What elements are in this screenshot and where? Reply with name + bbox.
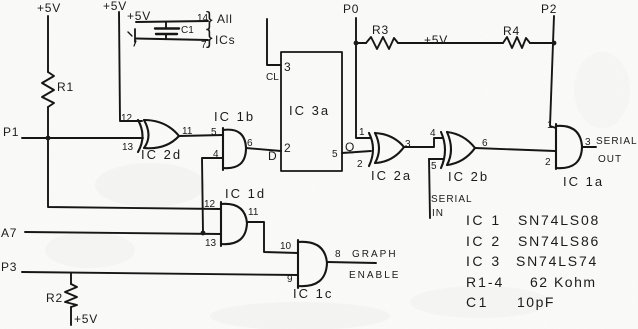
svg-text:SN74LS08: SN74LS08	[518, 212, 600, 228]
svg-text:62 Kohm: 62 Kohm	[530, 274, 597, 290]
svg-text:SN74LS86: SN74LS86	[518, 233, 600, 249]
svg-text:+5V: +5V	[424, 33, 448, 47]
svg-text:IC 1d: IC 1d	[225, 186, 266, 201]
svg-text:3: 3	[585, 137, 591, 148]
svg-text:IC 2: IC 2	[466, 233, 502, 249]
svg-text:+5V: +5V	[37, 1, 61, 15]
svg-text:CL: CL	[266, 72, 279, 83]
svg-text:SERIAL: SERIAL	[431, 194, 473, 205]
svg-text:13: 13	[122, 142, 134, 153]
svg-text:3: 3	[284, 60, 291, 74]
svg-text:IC 3: IC 3	[466, 253, 502, 269]
svg-text:ENABLE: ENABLE	[349, 270, 400, 281]
svg-text:IC 3a: IC 3a	[289, 103, 330, 118]
svg-text:P2: P2	[541, 2, 557, 16]
svg-text:+5V: +5V	[74, 312, 98, 326]
svg-text:Q: Q	[345, 140, 355, 154]
svg-text:C1: C1	[466, 294, 489, 310]
svg-text:IC 2d: IC 2d	[141, 147, 182, 162]
svg-text:12: 12	[204, 199, 216, 210]
svg-text:IC 1c: IC 1c	[293, 286, 333, 301]
svg-text:All: All	[217, 12, 233, 26]
svg-text:P0: P0	[343, 2, 359, 16]
svg-text:9: 9	[287, 274, 293, 285]
svg-text:11: 11	[248, 207, 259, 218]
svg-text:IN: IN	[432, 208, 444, 219]
svg-text:1: 1	[359, 127, 365, 138]
svg-text:A7: A7	[1, 226, 17, 240]
svg-text:13: 13	[205, 238, 217, 249]
svg-text:2: 2	[357, 159, 363, 170]
svg-text:P1: P1	[3, 125, 19, 139]
svg-text:R4: R4	[503, 24, 520, 38]
svg-text:6: 6	[247, 138, 253, 149]
svg-text:5: 5	[211, 127, 217, 138]
svg-text:ICs: ICs	[215, 33, 235, 47]
svg-text:6: 6	[482, 138, 488, 149]
svg-text:10: 10	[280, 241, 292, 252]
svg-text:IC 2a: IC 2a	[371, 168, 412, 183]
svg-text:SERIAL: SERIAL	[596, 136, 638, 147]
svg-text:C1: C1	[181, 25, 194, 36]
svg-text:}: }	[206, 27, 213, 49]
svg-text:10pF: 10pF	[517, 294, 555, 310]
svg-text:R2: R2	[46, 291, 63, 305]
svg-text:+5V: +5V	[103, 0, 127, 13]
svg-text:D: D	[268, 149, 277, 163]
svg-text:R3: R3	[372, 23, 389, 37]
svg-text:IC 1b: IC 1b	[214, 109, 255, 124]
svg-text:P3: P3	[1, 260, 17, 274]
svg-text:SN74LS74: SN74LS74	[516, 253, 598, 269]
svg-text:IC 1: IC 1	[466, 212, 502, 228]
svg-text:11: 11	[182, 126, 193, 137]
svg-text:2: 2	[284, 141, 291, 155]
svg-text:5: 5	[431, 161, 437, 172]
svg-text:+5V: +5V	[127, 9, 151, 23]
svg-text:1: 1	[547, 120, 553, 131]
svg-text:8: 8	[335, 249, 341, 260]
svg-text:2: 2	[545, 157, 551, 168]
svg-text:OUT: OUT	[598, 154, 622, 165]
svg-text:4: 4	[430, 128, 436, 139]
svg-text:R1-4: R1-4	[466, 274, 504, 290]
svg-text:3: 3	[405, 139, 411, 150]
svg-text:R1: R1	[57, 80, 74, 94]
svg-text:GRAPH: GRAPH	[352, 249, 398, 260]
svg-text:IC 2b: IC 2b	[448, 169, 489, 184]
svg-text:5: 5	[332, 149, 338, 160]
svg-text:IC 1a: IC 1a	[563, 174, 604, 189]
svg-text:12: 12	[121, 113, 133, 124]
svg-text:4: 4	[213, 149, 219, 160]
